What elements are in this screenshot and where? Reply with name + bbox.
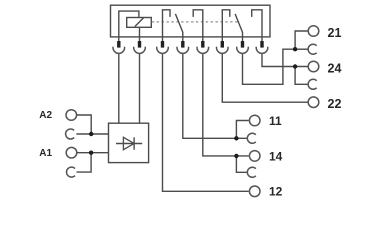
bridge socket 11 [247,133,256,143]
pin 4 [181,41,184,48]
relay coil K1 [127,18,152,28]
mechanical link (dashed) [152,21,239,23]
wire node 21 riser [295,31,307,49]
terminal A1 [66,147,77,158]
contact K1.1 NO terminal [193,10,203,41]
wire node 11 to bridge socket [236,137,248,139]
terminal 12 [249,186,260,197]
svg-text:A1: A1 [39,148,52,159]
svg-text:22: 22 [328,97,342,111]
svg-text:14: 14 [269,149,283,163]
socket pin 1 [113,47,125,54]
wire coil pin2 feed [139,27,141,41]
label A1 [39,148,52,159]
svg-text:12: 12 [269,185,283,199]
wire node 24 to bridge socket [295,67,309,85]
bridge socket 14 [247,167,256,177]
pin 7 [241,41,244,48]
wire pin6 to terminal 22 [222,54,307,102]
svg-text:24: 24 [328,61,342,75]
socket pin 4 [177,47,189,54]
socket pin 7 [237,47,249,54]
socket pin 3 [157,47,169,54]
contact K1.2 NC terminal [222,10,230,41]
wire pin8 to node 24 [262,54,308,67]
svg-text:11: 11 [269,114,282,128]
wire A1 socket to junction [77,153,92,172]
contact K1.1 lever COM [175,14,182,41]
label 14 [269,149,283,163]
label 21 [328,26,342,40]
terminal 21 [308,26,319,37]
contact K1.1 NC terminal [163,10,171,41]
junction node 14 [234,154,238,158]
terminal 11 [249,115,260,126]
wire A2 socket to rectifier [76,133,108,135]
svg-text:A2: A2 [39,110,52,121]
wire node 21 to bridge socket [295,48,309,50]
junction A2 [89,132,93,136]
diode D1 [116,137,142,149]
junction A1 [89,151,93,155]
wire pin3 to terminal 12 [163,54,249,191]
terminal 14 [249,151,260,162]
wire pin5 to node 14 [203,54,249,156]
junction node 21 [293,47,297,51]
label 12 [269,185,283,199]
relay module outline [111,5,271,37]
pin 1 [117,41,120,48]
junction node 24 [293,64,297,68]
bridge socket A1 [67,167,76,177]
label 11 [269,114,282,128]
contact K1.2 lever COM [235,14,242,41]
wire A2 to junction [77,115,92,134]
pin 3 [161,41,164,48]
wire pin1 to rectifier [118,54,120,123]
socket pin 8 [256,47,268,54]
bridge socket A2 [66,129,75,139]
pin 6 [221,41,224,48]
pin 5 [201,41,204,48]
wire pin7 to node 21 [243,49,296,84]
contact K1.2 NO terminal [252,10,262,41]
socket pin 2 [134,47,146,54]
label 22 [328,97,342,111]
wire pin2 to rectifier [139,54,141,123]
pin 2 [138,41,141,48]
bridge socket 21 [308,44,317,54]
socket pin 5 [197,47,209,54]
junction node 11 [234,136,238,140]
terminal 22 [308,97,319,108]
label A2 [39,110,52,121]
socket pin 6 [216,47,228,54]
label 24 [328,61,342,75]
wire pin4 to node 11 [183,54,237,138]
terminal 24 [308,61,319,72]
wire node 14 to bridge socket [236,156,248,172]
wire node 11 riser [236,121,248,139]
rectifier module box [109,123,149,162]
wire A1 to rectifier [77,152,109,154]
wire coil pin1 feed [119,11,139,41]
svg-text:21: 21 [328,26,342,40]
bridge socket 24 [308,79,317,89]
pin 8 [260,41,263,48]
terminal A2 [66,110,77,121]
